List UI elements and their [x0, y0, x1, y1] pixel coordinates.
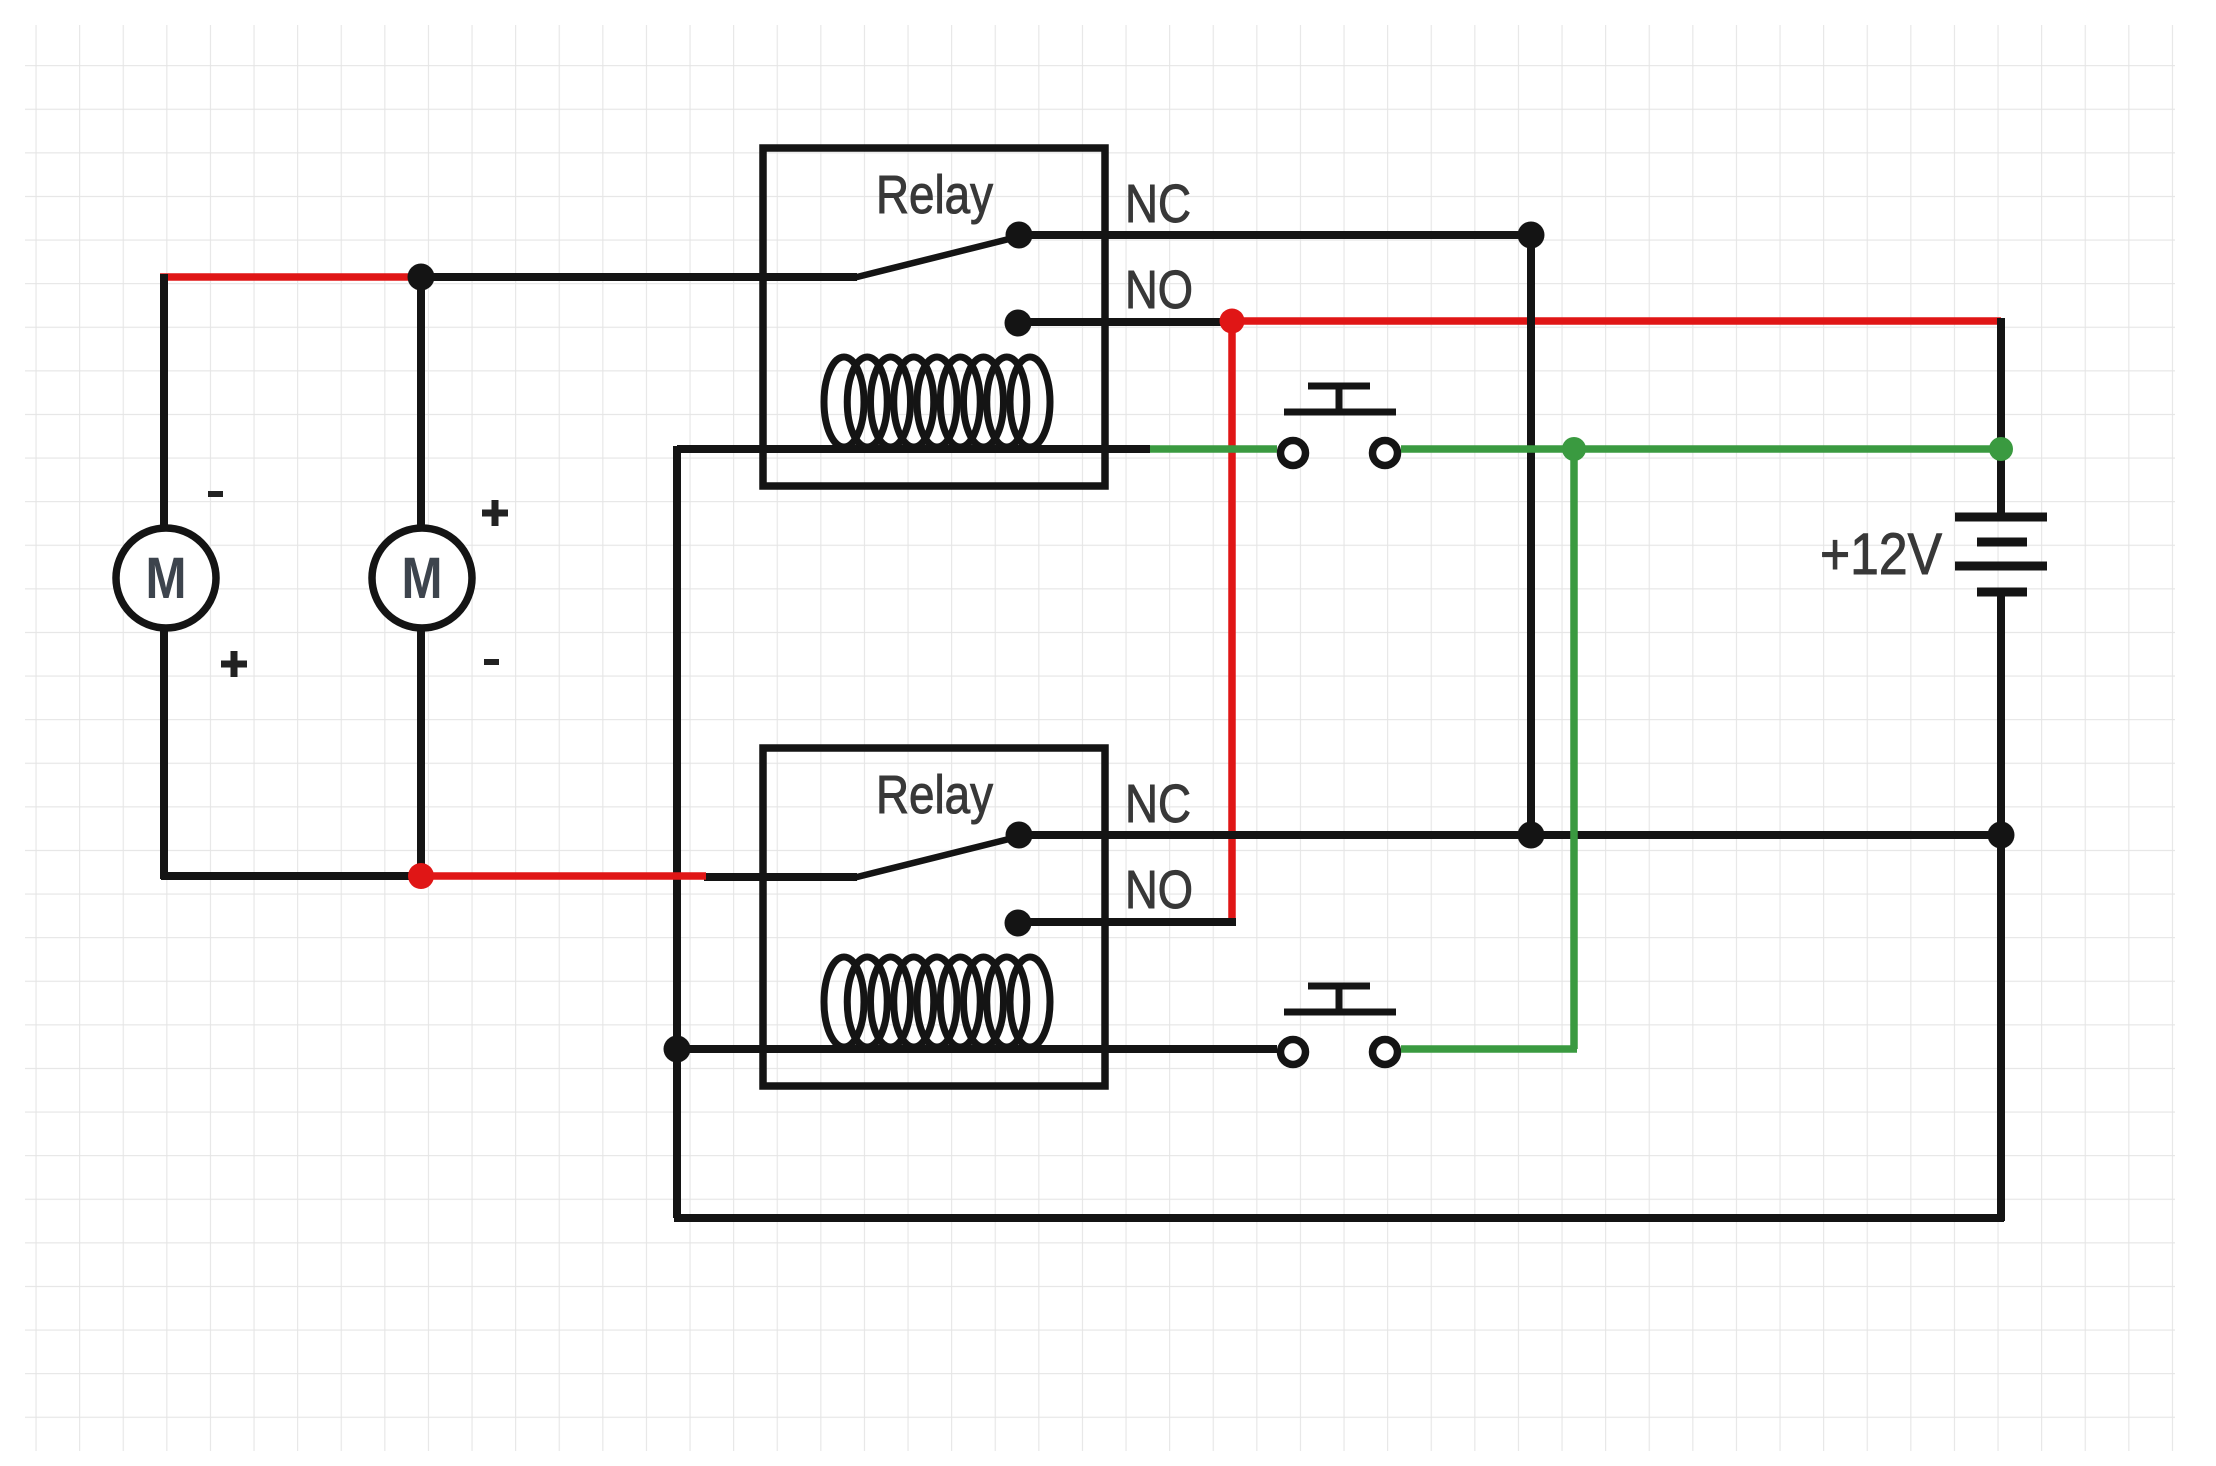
wire green S2 to bus — [1401, 1045, 1577, 1053]
motor M1 — [116, 528, 216, 628]
wire NC bus vertical — [1527, 235, 1535, 835]
wire motor1 bottom lead — [160, 628, 168, 879]
node relay1 NC contact — [1006, 222, 1033, 249]
svg-text:M: M — [402, 546, 443, 611]
motor M2 — [372, 528, 472, 628]
node relay2 NO contact — [1005, 910, 1032, 937]
node NC bus bottom junction — [1518, 822, 1545, 849]
svg-text:NC: NC — [1125, 174, 1191, 234]
wire green coil1 to pushbutton S1 — [1150, 445, 1277, 453]
node red NO junction — [1220, 309, 1245, 334]
node coil bus junction — [664, 1036, 691, 1063]
wire bottom return — [674, 1214, 2004, 1222]
wire relay2 arm — [853, 837, 1017, 878]
node red bottom junction — [408, 863, 434, 889]
motor M1 minus — [208, 491, 223, 497]
coil L2 (relay K2) — [824, 957, 1050, 1047]
wire bottom-left horizontal — [161, 872, 421, 880]
wire common to relay1 — [421, 273, 857, 281]
node green bus junction — [1562, 437, 1586, 461]
node relay2 NC contact — [1006, 822, 1033, 849]
wire motor2 top lead — [417, 277, 425, 528]
wire motor2 bottom lead — [417, 628, 425, 876]
wire relay2 coil bottom — [677, 1045, 1277, 1053]
svg-text:NO: NO — [1125, 260, 1193, 320]
wire motor1 top lead — [160, 274, 168, 528]
wire battery top lead — [1997, 318, 2005, 517]
motor M2 plus — [482, 500, 508, 526]
wire relay1 NC contact out — [1019, 231, 1531, 239]
wire battery bottom lead — [1997, 592, 2005, 1221]
relay K2 box — [763, 748, 1105, 1086]
wire relay1 NO contact out — [1018, 318, 1236, 326]
wire relay1 arm — [853, 237, 1017, 278]
wire red top-left (motor1 plus rail) — [160, 273, 421, 281]
wire relay2 common stub — [704, 873, 857, 881]
node common top junction — [408, 264, 435, 291]
node relay1 NO contact — [1005, 310, 1032, 337]
svg-text:+12V: +12V — [1820, 522, 1942, 587]
wire red vertical NO bus — [1228, 321, 1236, 925]
svg-text:Relay: Relay — [876, 765, 993, 825]
node green battery junction — [1989, 437, 2013, 461]
pushbutton S1 — [1281, 386, 1398, 466]
motor M1 plus — [221, 651, 247, 677]
pushbutton S2 — [1281, 986, 1398, 1065]
wire red bottom (motor minus rail) — [421, 872, 706, 880]
battery BT1 plates — [1955, 517, 2047, 592]
wire bottom NC to battery — [1019, 831, 2001, 839]
svg-text:NO: NO — [1125, 860, 1193, 920]
wire left coil bus vertical — [673, 446, 681, 1218]
wire green S1 to battery — [1401, 445, 2001, 453]
wire green vertical S2 bus — [1570, 449, 1578, 1049]
wire relay1 coil bottom — [677, 445, 1150, 453]
node battery NC junction — [1988, 822, 2015, 849]
wire red NO-to-battery top — [1232, 317, 2001, 325]
wire relay2 NO contact out — [1018, 918, 1236, 926]
svg-text:M: M — [146, 546, 187, 611]
svg-text:Relay: Relay — [876, 165, 993, 225]
relay K1 box — [763, 148, 1105, 486]
coil L1 (relay K1) — [824, 357, 1050, 447]
node NC bus top junction — [1518, 222, 1545, 249]
svg-text:NC: NC — [1125, 774, 1191, 834]
motor M2 minus — [484, 659, 499, 665]
